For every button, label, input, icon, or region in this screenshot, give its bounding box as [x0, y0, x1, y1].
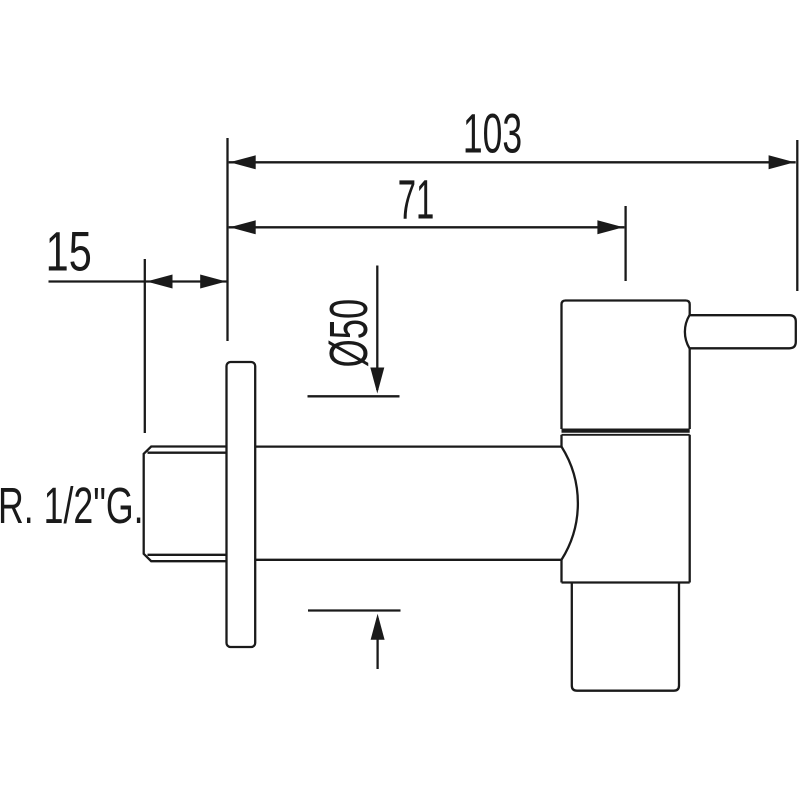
svg-text:Ø50: Ø50 — [319, 299, 379, 368]
thin separator line — [562, 434, 690, 436]
dimension D50: up arrowhead — [371, 614, 385, 640]
dimension 15: tick line — [144, 259, 146, 433]
dimension 15: dimension line — [49, 280, 228, 282]
dimension 15: right arrowhead — [200, 275, 226, 289]
handle lever — [685, 315, 796, 348]
dimension D50: lower leader line — [376, 618, 378, 669]
dimension 71: left arrowhead — [230, 220, 256, 234]
dimension 103: right extension line — [796, 140, 798, 291]
dimension D50: upper edge line — [308, 395, 400, 397]
dimension 71: right arrowhead — [597, 220, 623, 234]
dimension 15: left arrowhead — [147, 275, 173, 289]
dimension 103: left arrowhead — [230, 155, 256, 169]
dimension 71: right tick line — [624, 206, 626, 281]
dimension 103: dimension line — [229, 161, 796, 163]
valve body upper block — [562, 301, 690, 430]
dimension D50: lower edge line — [308, 609, 401, 611]
dimension 103: left extension line — [226, 138, 228, 341]
wall flange — [227, 362, 256, 647]
svg-text:71: 71 — [398, 167, 435, 230]
spout outlet — [572, 583, 679, 691]
svg-text:15: 15 — [46, 220, 92, 283]
svg-text:103: 103 — [463, 102, 522, 164]
pipe barrel — [255, 447, 578, 560]
dimension 103: right arrowhead — [769, 155, 795, 169]
svg-text:R. 1/2"G.: R. 1/2"G. — [0, 478, 144, 535]
dimension D50: upper leader line — [376, 266, 378, 391]
dimension D50: down arrowhead — [370, 368, 384, 394]
valve body lower block — [562, 435, 690, 583]
hex nut / threaded end R 1/2"G — [144, 447, 227, 562]
dimension 71: dimension line — [229, 226, 625, 228]
thick separator line — [562, 429, 690, 433]
